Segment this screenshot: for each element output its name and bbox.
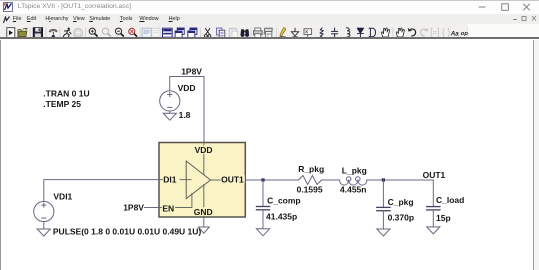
U1 DI1 pin line: [159, 179, 191, 181]
icon: open folder: [18, 28, 27, 37]
svg-text:15p: 15p: [436, 213, 451, 223]
wire U1 GND pin to ground: [203, 217, 205, 227]
wire C_load top lead: [432, 180, 434, 206]
ground (below C_pkg): [377, 229, 390, 236]
U1 pin label OUT1: [221, 175, 245, 183]
icon: print: [253, 28, 262, 37]
wire OUT1 pin to R_pkg: [245, 179, 298, 181]
capacitor C_comp: [256, 207, 269, 210]
icon: zoom in: [89, 28, 97, 36]
wire L_pkg to OUT1 node: [367, 179, 433, 181]
icon: run page: [7, 28, 15, 38]
U1 pin label GND: [193, 207, 213, 215]
icon: pencil (wire): [280, 28, 286, 37]
wire VDD top horizontal: [170, 76, 204, 78]
U1 pin label VDD: [194, 146, 213, 154]
wire C_comp top lead: [262, 180, 264, 206]
svg-text:C_pkg: C_pkg: [388, 197, 414, 207]
icon: diode tool: [357, 28, 364, 37]
sep lines: [30, 28, 393, 38]
svg-text:.TRAN 0 1U: .TRAN 0 1U: [43, 89, 89, 99]
icon: run man: [63, 28, 71, 38]
wire EN stub: [145, 207, 159, 209]
svg-text:VDD: VDD: [195, 145, 213, 155]
icon: cut: [204, 28, 210, 37]
icon: redo (disabled): [421, 28, 428, 36]
icon: find binoculars: [240, 29, 249, 37]
svg-text:.TEMP 25: .TEMP 25: [43, 99, 81, 109]
icon: move hand: [382, 28, 390, 37]
U1 EN pin line: [159, 194, 192, 208]
mdi child controls: [512, 14, 539, 23]
icon: datasheet (pale): [142, 28, 151, 37]
ground (below C_comp): [256, 229, 269, 236]
ground (below U1): [198, 227, 209, 233]
icon: zoom out: [115, 28, 123, 36]
U1 GND pin line: [203, 185, 205, 217]
icon: capacitor tool: [331, 28, 338, 38]
svg-text:DI1: DI1: [163, 175, 177, 185]
wire VDI1 top lead and DI1 horizontal: [44, 180, 159, 202]
svg-text:R_pkg: R_pkg: [298, 164, 324, 174]
svg-text:VDD: VDD: [178, 83, 196, 93]
icon: ground tool: [291, 28, 298, 37]
icon: edit eq (disabled): [431, 28, 438, 37]
svg-text:VDI1: VDI1: [53, 192, 72, 202]
junction node at C_pkg: [382, 178, 385, 181]
U1 buffer triangle: [186, 161, 210, 199]
inductor L_pkg: [340, 177, 367, 185]
icon: save: [33, 28, 42, 38]
icon: undo: [408, 28, 415, 36]
svg-text:EN: EN: [162, 203, 174, 213]
svg-text:1P8V: 1P8V: [181, 66, 202, 76]
svg-text:0.1595: 0.1595: [297, 185, 323, 195]
icon: net label: [304, 29, 312, 38]
ground (below C_load): [427, 227, 440, 234]
window controls: [470, 0, 539, 14]
svg-text:0.370p: 0.370p: [388, 212, 414, 222]
wire VDD source top lead: [169, 77, 171, 91]
icon: component tool: [369, 28, 376, 37]
icon: zoom full (red): [129, 28, 137, 36]
wire C_load bottom lead: [432, 210, 434, 227]
wire VDD label drop to U1 VDD pin: [203, 77, 205, 143]
svg-text:4.455n: 4.455n: [340, 185, 366, 195]
U1 pin label EN: [162, 204, 175, 212]
junction node at C_comp: [261, 178, 264, 181]
toolbar: [0, 24, 539, 39]
icon: resistor tool: [320, 28, 323, 38]
wire VDD source bottom lead: [169, 111, 171, 113]
svg-text:C_load: C_load: [436, 195, 464, 205]
menu bar: [0, 14, 539, 24]
wire C_pkg top lead: [382, 180, 384, 207]
svg-text:1.8: 1.8: [179, 110, 191, 120]
icon: drag hand: [396, 28, 404, 37]
ground (below VDI1): [37, 229, 50, 236]
wire C_comp bottom lead: [262, 210, 264, 229]
icon: paste (disabled): [229, 28, 238, 38]
capacitor C_load: [427, 207, 440, 210]
svg-text:41.435p: 41.435p: [266, 211, 297, 221]
U1 VDD pin line: [203, 143, 205, 175]
icon: halt (disabled): [74, 29, 82, 37]
icon: gray page (disabled): [152, 28, 160, 37]
icon: braces (disabled): [443, 28, 450, 37]
app icon: [3, 2, 13, 12]
ground (below VDD source): [163, 113, 176, 120]
icon: copy: [216, 28, 224, 37]
icon: control panel hammer: [49, 29, 57, 38]
title bar: [0, 0, 539, 14]
icon: zoom back (gray): [102, 28, 110, 36]
voltage source VDI1: [34, 201, 54, 221]
svg-text:PULSE(0 1.8 0 0.01U 0.01U 0.49: PULSE(0 1.8 0 0.01U 0.01U 0.49U 1U): [53, 226, 202, 236]
wire C_pkg bottom lead: [382, 211, 384, 229]
wire VDI1 bottom lead: [43, 222, 45, 229]
svg-text:C_comp: C_comp: [267, 196, 301, 206]
icon: tile windows: [188, 28, 197, 37]
voltage source VDD: [160, 91, 180, 111]
wire R_pkg to L_pkg: [322, 179, 340, 181]
op-amp U1 (buffer cell) body: [159, 143, 245, 218]
resistor R_pkg: [299, 176, 322, 185]
svg-text:OUT1: OUT1: [423, 170, 446, 180]
icon: inductor tool: [346, 28, 350, 37]
icon: window bars: [163, 28, 173, 37]
svg-text:OUT1: OUT1: [221, 175, 244, 185]
capacitor C_pkg: [377, 207, 390, 210]
U1 pin label DI1: [163, 175, 180, 183]
U1 OUT1 pin line: [211, 179, 246, 181]
icon: print preview: [264, 28, 272, 37]
svg-text:GND: GND: [194, 207, 213, 217]
svg-text:L_pkg: L_pkg: [342, 166, 367, 176]
svg-text:1P8V: 1P8V: [123, 203, 144, 213]
icon: cascade windows: [175, 28, 184, 37]
